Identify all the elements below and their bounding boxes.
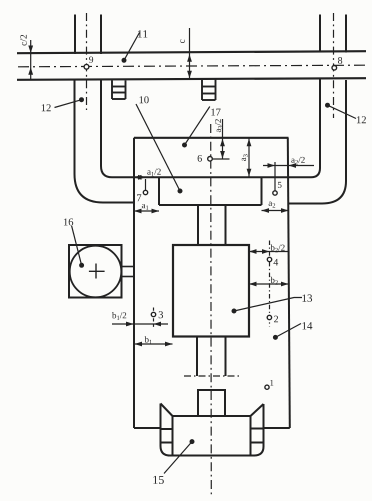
label 8 [338, 57, 342, 64]
a3/2 up arrow [220, 139, 225, 147]
a1 right arrow [152, 209, 160, 214]
label 11 [138, 30, 147, 37]
chuck right wing [251, 404, 264, 456]
chuck 15 box [168, 416, 255, 456]
carriage block A (ladder) [112, 81, 126, 100]
lower column right line [225, 337, 227, 377]
b1 right arrow [165, 342, 173, 347]
leader 14 [275, 324, 301, 338]
left yoke inner line [101, 81, 134, 178]
motor plus mark [89, 270, 105, 272]
leader 13 [234, 298, 302, 312]
body bottom edge left part [134, 427, 161, 429]
label 13 [302, 294, 312, 301]
body 14 top edge (beam top) [134, 137, 289, 139]
label b2/2 [270, 244, 284, 252]
label a2/2 [291, 157, 304, 165]
main vertical centerline [210, 124, 213, 497]
motor 16 circle [70, 246, 122, 298]
label b1/2 [112, 312, 126, 320]
neck rectangle [198, 390, 225, 416]
b2 right arrow [281, 282, 289, 287]
dim a1 line [134, 210, 159, 212]
label 14 [302, 322, 312, 329]
leader 17 [185, 107, 210, 146]
label 17 [211, 109, 220, 116]
point 3 [151, 312, 155, 316]
label b1 [145, 336, 152, 344]
c/2 down arrow [28, 46, 33, 54]
right yoke inner line [289, 79, 321, 177]
rail bottom line [17, 78, 366, 80]
label a1/2 [147, 169, 160, 177]
label c rotated [180, 39, 185, 43]
right vertical rail outer line [345, 15, 347, 53]
label 12 left [42, 104, 51, 111]
saddle bottom edge [159, 204, 262, 206]
upper column right line [225, 205, 227, 245]
point 2 [267, 315, 271, 319]
label 9 [89, 57, 93, 63]
chuck left wing [161, 404, 173, 456]
a2/2 right-pointing arrow (outside left) [268, 163, 276, 168]
carriage block B (ladder) [202, 80, 216, 101]
a1 left arrow [134, 209, 142, 214]
dim a2 line [262, 210, 289, 212]
points 4-2 dash-dot line [269, 241, 271, 327]
saddle right step [261, 177, 263, 205]
label 2 [274, 316, 278, 323]
label b2 [270, 277, 277, 285]
motor 16 square [69, 245, 122, 298]
left vertical rail inner line [100, 15, 102, 55]
leader 15 [164, 442, 192, 474]
leader 10 [136, 104, 180, 191]
a3 down arrow [247, 169, 252, 177]
point 7 [143, 190, 147, 194]
point 3 dashed line [153, 308, 155, 330]
body 14 right edge [288, 138, 290, 428]
a3/2 down arrow [220, 151, 225, 159]
lower column left line [196, 337, 198, 377]
rail top line [17, 51, 366, 53]
dim b2 line [249, 283, 289, 285]
point 6 [208, 157, 213, 162]
pivot axis dash-dot [184, 375, 240, 377]
dim c/2 line [30, 40, 32, 81]
dim a3 line [248, 139, 250, 177]
c/2 up arrow [28, 67, 33, 75]
label a1 [142, 204, 149, 210]
dim c line [189, 28, 191, 79]
label 16 [64, 218, 73, 225]
a2 left arrow [262, 208, 270, 213]
right yoke outer line [289, 80, 347, 204]
point 5 extension line [274, 162, 276, 191]
left rail centerline dash-dot [86, 13, 88, 110]
box 13 (spindle box) [173, 245, 249, 337]
label 10 [140, 96, 149, 103]
label 15 [153, 476, 163, 484]
a3 up arrow [247, 139, 252, 147]
right vertical rail inner line [319, 15, 321, 53]
left yoke outer line (curved into frame) [75, 81, 135, 203]
dim b1/2 line [112, 323, 168, 325]
right rail centerline dash-dot [333, 13, 335, 118]
rail center dash-dot line [18, 65, 366, 67]
label 1 superscript [270, 380, 273, 386]
a1/2 left arrow [134, 175, 142, 180]
point 6 tick [213, 158, 230, 160]
label a3 rotated [242, 154, 248, 161]
point 5 [273, 191, 277, 195]
dim a1/2 ext line point7 [145, 179, 147, 190]
b2 left arrow [249, 282, 257, 287]
body bottom edge right part [264, 427, 290, 429]
dim a3/2 line [222, 119, 224, 159]
a1/2 right arrow [138, 175, 146, 180]
point 1 [265, 385, 269, 389]
c down arrow [187, 71, 192, 79]
b2/2 left arrow [249, 249, 257, 254]
label a2 [269, 202, 276, 208]
saddle left step [158, 177, 160, 205]
a2/2 left-pointing arrow (outside right) [289, 163, 297, 168]
leader 12 right [328, 105, 357, 118]
left vertical rail outer line [74, 15, 76, 55]
point 9 [84, 64, 89, 69]
b1/2 left-pointing arrow (outside right) [154, 322, 162, 327]
motor coupling lines [122, 266, 135, 268]
dim b1 line [135, 343, 173, 345]
label 7 [137, 194, 141, 201]
point 8 [332, 66, 337, 71]
label 6 [198, 155, 202, 162]
dim a2/2 line [263, 165, 314, 167]
b2/2 right arrow [262, 249, 270, 254]
upper column left line [197, 205, 199, 245]
label 5 [278, 182, 282, 188]
label 4 [274, 259, 279, 266]
leader 12 left [55, 100, 82, 108]
leader 16 [72, 226, 82, 265]
dim b2/2 line [249, 251, 289, 253]
label a3/2 rotated [215, 119, 222, 132]
b1/2 right-pointing arrow (outside left) [126, 322, 134, 327]
label 12 right [357, 116, 366, 123]
body 14 left edge [133, 138, 135, 428]
beam 17 bottom line [134, 176, 289, 178]
label c/2 rotated [20, 35, 26, 46]
a2 right arrow [281, 208, 289, 213]
leader 11 [124, 33, 140, 61]
c up arrow [187, 54, 192, 62]
label 3 [159, 311, 163, 318]
b1 left arrow [135, 342, 143, 347]
point 4 [267, 257, 271, 261]
